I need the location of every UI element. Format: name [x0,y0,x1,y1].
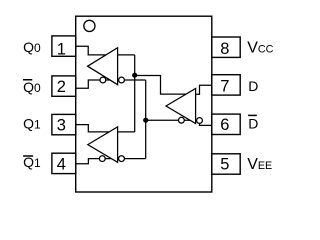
wire pin6 D-bar to U1c inverting input bubble [200,121,212,126]
wire U1c true output to bus junction [135,76,186,95]
IC body U1 (8-lead SOIC outline) [76,16,212,192]
pin 2 box [52,76,76,96]
pin 1 index circle [84,20,95,31]
wire pin3 to U1b true output tap [76,125,110,132]
wire true bus (vertical) feeding U1a/U1b noninverting inputs [134,55,136,132]
U1c inverting input bubble [197,118,203,124]
svg-text:Q0: Q0 [23,39,41,55]
buffer U1a triangle (upper output driver) [88,48,118,85]
svg-text:8: 8 [220,40,229,58]
wire U1c inverted output to bus junction [146,119,190,121]
wire pin4 to U1b inverted output [76,159,112,164]
svg-text:5: 5 [220,156,229,174]
wire pin2 to U1a inverted output [76,80,110,88]
svg-text:D: D [248,78,258,94]
svg-text:7: 7 [220,77,229,95]
U1c inverted output bubble [179,117,185,123]
U1a inverting input bubble [119,77,125,83]
svg-text:Q0: Q0 [23,79,41,95]
wire pin7 D to U1c noninverting input [196,85,212,94]
wire U1b noninverting input [118,131,135,133]
wire pin1 to U1a true output tap [76,46,106,55]
pin 3 box [52,114,76,134]
pin 1 box [52,36,76,56]
pin 7 box [212,75,240,95]
buffer U1b triangle (lower output driver) [88,127,118,162]
junction dot complement bus [143,118,148,123]
receiver U1c triangle (input buffer) [166,89,196,124]
svg-text:Q1: Q1 [23,116,41,132]
U1b inverted output bubble [99,156,105,162]
pin 5 box [212,154,240,174]
wire complement bus (vertical) feeding U1a/U1b inverting inputs [145,80,147,159]
svg-text:6: 6 [220,116,229,134]
junction dot true bus [132,73,137,78]
svg-text:3: 3 [57,116,66,134]
svg-text:1: 1 [57,40,66,58]
wire U1a noninverting input [118,54,135,56]
wire U1a inverting input [118,79,146,81]
pin 8 box [212,37,240,57]
svg-text:D: D [248,115,258,131]
pin 4 box [52,153,76,173]
svg-text:4: 4 [57,156,66,174]
svg-text:2: 2 [57,78,66,96]
U1b inverting input bubble [119,156,125,162]
wire U1b inverting input [118,158,146,160]
U1a inverted output bubble [100,77,106,83]
pin 6 box [212,114,240,134]
